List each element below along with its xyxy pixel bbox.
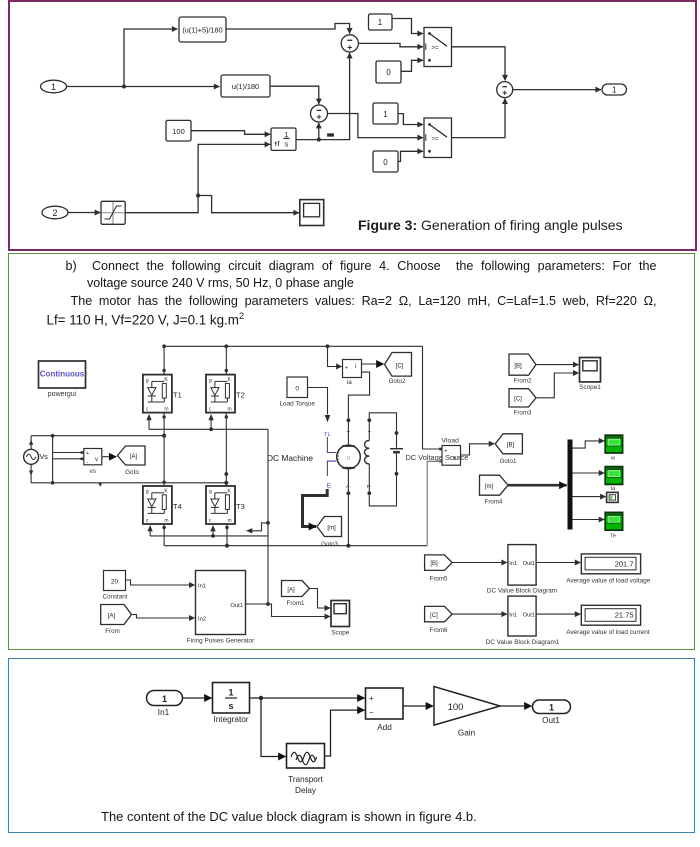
svg-text:21.75: 21.75 bbox=[615, 611, 634, 620]
scope Scope1 bbox=[579, 358, 601, 392]
svg-text:In1: In1 bbox=[158, 708, 170, 717]
svg-text:[B]: [B] bbox=[507, 443, 515, 449]
constant 1 (upper) bbox=[369, 14, 393, 30]
svg-text:In1: In1 bbox=[509, 561, 517, 567]
wire add to gain bbox=[403, 705, 433, 707]
wire switch1 to sum3 bbox=[452, 47, 506, 81]
wire battery- to F- bbox=[369, 476, 396, 506]
AC source Vs bbox=[24, 449, 49, 464]
svg-text:In2: In2 bbox=[198, 617, 206, 623]
display Te bbox=[605, 512, 622, 539]
wire Fcn2 to sum2 bbox=[270, 86, 319, 104]
wire vs measurement taps bbox=[51, 434, 83, 485]
wire demux to Te display bbox=[573, 519, 605, 521]
svg-text:From6: From6 bbox=[430, 627, 448, 634]
svg-text:[A]: [A] bbox=[130, 454, 138, 460]
wire branch to scope bbox=[198, 196, 299, 213]
small display block bbox=[607, 492, 619, 502]
svg-text:Vload: Vload bbox=[442, 437, 460, 444]
section 2: circuit of figure 4 bbox=[8, 253, 695, 650]
svg-text:From4: From4 bbox=[485, 499, 503, 506]
svg-text:ia: ia bbox=[347, 379, 352, 386]
svg-text:From1: From1 bbox=[287, 600, 305, 607]
wire rail A (DC+) bbox=[162, 344, 422, 348]
powergui block bbox=[39, 361, 86, 398]
subsystem DC Value Block Diagram bbox=[487, 545, 557, 595]
svg-text:2: 2 bbox=[52, 208, 57, 218]
sum1 bbox=[341, 35, 358, 52]
svg-text:[B]: [B] bbox=[430, 561, 438, 567]
svg-text:TL: TL bbox=[324, 432, 331, 438]
svg-text:T2: T2 bbox=[236, 391, 245, 400]
wire field F- bbox=[367, 464, 372, 495]
sum2 bbox=[311, 105, 328, 122]
Fcn block (u(1)+5)/180 bbox=[179, 17, 226, 42]
svg-text:w: w bbox=[610, 456, 615, 462]
svg-text:u(1)/180: u(1)/180 bbox=[232, 82, 259, 91]
voltage measurement vs bbox=[84, 449, 102, 476]
wire integrator out with junction bbox=[250, 696, 365, 700]
wire AC+ bus bbox=[31, 435, 164, 437]
svg-text:i: i bbox=[355, 364, 356, 370]
output port 1 bbox=[602, 84, 627, 95]
wire Fcn1 to sum1 bbox=[226, 24, 350, 34]
wire demux to small display bbox=[573, 496, 606, 498]
display 201.7 bbox=[566, 554, 651, 585]
from tag [B] From2 bbox=[509, 354, 536, 385]
switch2 bbox=[424, 118, 452, 158]
svg-text:Average value of load voltage: Average value of load voltage bbox=[566, 578, 651, 585]
wire ia to armature A+ bbox=[347, 372, 370, 422]
svg-text:Te: Te bbox=[610, 533, 616, 539]
section 3: DC value block diagram bbox=[8, 658, 695, 833]
svg-text:[C]: [C] bbox=[396, 363, 404, 369]
svg-text:Continuous: Continuous bbox=[40, 370, 85, 379]
svg-text:Firing Pulses Generator: Firing Pulses Generator bbox=[187, 638, 255, 645]
integrator block bbox=[213, 683, 250, 725]
add block bbox=[366, 688, 404, 732]
svg-text:s: s bbox=[285, 141, 289, 148]
wire sum1 to switch1 bbox=[358, 43, 423, 46]
svg-text:T1: T1 bbox=[173, 391, 182, 400]
svg-text:[m]: [m] bbox=[485, 484, 494, 490]
wire vs to Goto bbox=[102, 456, 117, 458]
svg-text:Transport: Transport bbox=[288, 775, 323, 784]
gate bus T1 T2 bbox=[146, 414, 268, 431]
from tag [A] From bbox=[101, 605, 132, 636]
svg-text:DC Value Block Diagram: DC Value Block Diagram bbox=[487, 588, 557, 595]
wire Vload to Goto1 bbox=[461, 444, 495, 455]
scope block bbox=[300, 200, 324, 226]
wire junction up to sum2 bbox=[318, 123, 320, 140]
svg-text:+: + bbox=[345, 365, 348, 371]
constant 1 (lower) bbox=[373, 103, 398, 124]
subsystem DC Value Block Diagram1 bbox=[486, 596, 560, 646]
wire Vload - to rail D bbox=[427, 460, 442, 546]
svg-text:Goto2: Goto2 bbox=[389, 378, 406, 385]
svg-text:DC Value Block Diagram1: DC Value Block Diagram1 bbox=[486, 639, 560, 646]
svg-text:Goto: Goto bbox=[125, 469, 139, 476]
Fcn block u(1)/180 bbox=[221, 75, 270, 97]
svg-text:100: 100 bbox=[448, 702, 464, 713]
svg-text:Out1: Out1 bbox=[542, 716, 560, 725]
wire 100 to integrator bbox=[191, 131, 270, 135]
wire armature A- to rail D bbox=[346, 469, 351, 546]
wire switch2 to sum3 bbox=[452, 98, 506, 137]
subsystem Firing Pulses Generator bbox=[187, 571, 255, 645]
wire branch to transport delay bbox=[261, 698, 286, 757]
input port In1 bbox=[147, 691, 183, 718]
saturation block bbox=[101, 201, 125, 224]
display 21.75 bbox=[566, 605, 650, 636]
thick wire From4 to demux bbox=[508, 484, 566, 487]
svg-text:1: 1 bbox=[162, 694, 167, 704]
wire From1 to scope bbox=[310, 589, 331, 609]
svg-text:+: + bbox=[86, 451, 89, 457]
display w bbox=[605, 435, 622, 462]
field winding F+ bbox=[367, 418, 371, 440]
svg-text:In1: In1 bbox=[509, 612, 517, 618]
wire junction to Fcn2 bbox=[124, 86, 220, 88]
svg-text:s: s bbox=[228, 701, 233, 711]
svg-text:From3: From3 bbox=[514, 410, 532, 417]
wire leg2 top bbox=[225, 346, 228, 374]
svg-text:F-: F- bbox=[367, 484, 372, 490]
DC machine armature circle bbox=[337, 445, 361, 469]
svg-text:201.7: 201.7 bbox=[615, 559, 634, 568]
wire leg2 bottom bbox=[225, 524, 229, 548]
wire transport delay to add bbox=[325, 710, 365, 756]
scope Scope bbox=[331, 601, 350, 637]
svg-text:>=: >= bbox=[432, 46, 440, 52]
sum3 bbox=[497, 82, 513, 98]
output port Out1 bbox=[533, 700, 571, 725]
gain block bbox=[434, 687, 500, 738]
battery DC voltage source bbox=[390, 435, 403, 476]
svg-text:From5: From5 bbox=[430, 575, 448, 582]
svg-text:DC Voltage Source: DC Voltage Source bbox=[406, 453, 469, 462]
demux bus bar bbox=[568, 440, 573, 530]
svg-text:Average value of load current: Average value of load current bbox=[566, 629, 650, 636]
svg-text:−: − bbox=[369, 708, 374, 717]
wire From3 to Scope1 bbox=[536, 373, 579, 398]
wire From to In2 bbox=[132, 615, 195, 619]
svg-text:DC Machine: DC Machine bbox=[267, 453, 313, 463]
svg-text:v: v bbox=[95, 457, 98, 463]
DC machine TL port (blue) bbox=[324, 432, 336, 490]
thyristor T4 bbox=[143, 486, 182, 524]
wire gate staircase bbox=[246, 523, 268, 534]
wire leg1 mid node M1 bbox=[162, 413, 166, 486]
wire leg1 top bbox=[162, 346, 165, 374]
current measurement ia bbox=[343, 360, 362, 387]
input port 1 bbox=[41, 80, 67, 93]
wire constant to In1 bbox=[126, 580, 195, 585]
wire From6 to DCVBD1 bbox=[452, 613, 507, 615]
svg-text:Add: Add bbox=[377, 723, 392, 732]
integrator 1/s bbox=[271, 128, 296, 150]
svg-text:1: 1 bbox=[51, 82, 56, 92]
wire load torque to TL bbox=[308, 388, 331, 423]
constant 100 bbox=[166, 120, 191, 141]
svg-text:1: 1 bbox=[378, 18, 383, 27]
input port 2 bbox=[42, 206, 68, 219]
from tag [C] From3 bbox=[509, 389, 536, 417]
svg-text:A-: A- bbox=[346, 484, 351, 490]
wire ia signal to Goto2 bbox=[362, 363, 384, 365]
wire port1 to junction bbox=[67, 85, 126, 89]
svg-text:In1: In1 bbox=[198, 584, 206, 590]
svg-text:Out1: Out1 bbox=[523, 561, 535, 567]
svg-text:Vs: Vs bbox=[40, 452, 49, 461]
svg-text:0: 0 bbox=[383, 158, 388, 167]
constant 20 bbox=[103, 571, 128, 601]
svg-text:0: 0 bbox=[295, 385, 299, 392]
thyristor T2 bbox=[206, 375, 245, 413]
svg-text:From: From bbox=[105, 628, 119, 635]
svg-text:Integrator: Integrator bbox=[213, 715, 248, 724]
field winding coil bbox=[365, 441, 370, 464]
wire armature A+ bbox=[347, 422, 351, 445]
svg-text:[A]: [A] bbox=[108, 613, 116, 619]
wire sum2 to switch2 in2 bbox=[328, 114, 424, 138]
goto tag [m] Goto3 bbox=[317, 517, 342, 548]
svg-text:>=: >= bbox=[432, 136, 440, 142]
svg-text:1: 1 bbox=[383, 110, 388, 119]
wire rail A to ia bbox=[328, 346, 342, 366]
wire demux to w display bbox=[573, 441, 605, 448]
from tag [C] From6 bbox=[425, 606, 453, 633]
svg-text:[m]: [m] bbox=[327, 525, 336, 531]
svg-text:Constant: Constant bbox=[103, 594, 128, 601]
constant Load Torque bbox=[279, 377, 315, 408]
svg-text:Scope1: Scope1 bbox=[579, 384, 601, 391]
wire leg1 bottom bbox=[162, 524, 165, 546]
section 1: figure 3 firing angle pulses diagram bbox=[8, 0, 697, 251]
svg-text:Delay: Delay bbox=[295, 786, 317, 795]
wire rail D (DC-) bbox=[164, 544, 427, 548]
svg-text:+: + bbox=[368, 430, 372, 436]
svg-text:20: 20 bbox=[111, 579, 119, 586]
wire DCVBD1 to display bbox=[536, 613, 580, 615]
svg-text:Load Torque: Load Torque bbox=[279, 401, 315, 408]
wire AC bottom terminal bbox=[29, 464, 33, 483]
svg-text:From2: From2 bbox=[514, 378, 532, 385]
svg-text:Goto3: Goto3 bbox=[321, 541, 338, 548]
wire const0b to switch2 in3 bbox=[398, 151, 423, 161]
constant 0 (upper) bbox=[376, 61, 401, 83]
from tag [A] From1 bbox=[282, 581, 310, 607]
svg-text:Scope: Scope bbox=[331, 630, 350, 637]
wire AC top terminal bbox=[29, 436, 33, 450]
svg-text:Figure 3: Generation of firing: Figure 3: Generation of firing angle pul… bbox=[358, 217, 623, 233]
svg-text:E: E bbox=[327, 483, 332, 490]
wire const1 to switch1 in1 bbox=[392, 19, 423, 34]
transport delay block bbox=[287, 744, 325, 796]
wire saturation to riser bbox=[125, 144, 270, 212]
wire const0 to switch1 in3 bbox=[401, 60, 423, 71]
wire DCVBD to display bbox=[536, 562, 580, 564]
svg-text:+: + bbox=[347, 430, 351, 436]
svg-text:Out1: Out1 bbox=[230, 603, 243, 609]
wire integrator out with junctions bbox=[296, 53, 350, 142]
svg-text:+: + bbox=[369, 694, 374, 703]
wire sum3 to out port bbox=[513, 89, 601, 91]
wire junction up to Fcn1 bbox=[124, 29, 178, 87]
wire demux to Ia display bbox=[573, 472, 605, 474]
wire gain to Out1 bbox=[500, 705, 532, 707]
svg-text:100: 100 bbox=[172, 127, 185, 136]
svg-text:powergui: powergui bbox=[48, 391, 77, 398]
svg-text:Out1: Out1 bbox=[523, 612, 535, 618]
thyristor T3 bbox=[206, 486, 245, 524]
svg-text:1: 1 bbox=[549, 702, 554, 712]
wire From5 to DCVBD bbox=[452, 562, 507, 564]
thyristor T1 bbox=[143, 375, 182, 413]
wire leg2 mid node M2 bbox=[224, 413, 228, 486]
wire gate feed vertical bbox=[266, 429, 270, 604]
goto tag [B] Goto1 bbox=[495, 434, 522, 465]
svg-text:-: - bbox=[87, 460, 89, 466]
wire F+ feed from battery bbox=[369, 413, 398, 435]
voltage measurement Vload bbox=[442, 437, 461, 466]
svg-text:0: 0 bbox=[386, 68, 391, 77]
thick wire machine m to Goto3 bbox=[303, 489, 328, 527]
svg-text:[A]: [A] bbox=[287, 587, 295, 593]
display Ia bbox=[605, 467, 622, 493]
svg-text:T4: T4 bbox=[173, 502, 182, 511]
switch1 bbox=[424, 28, 452, 67]
svg-text:[C]: [C] bbox=[514, 397, 522, 403]
wire In1 to integrator bbox=[183, 697, 212, 699]
svg-text:Goto1: Goto1 bbox=[500, 458, 517, 465]
wire port2 to saturation bbox=[68, 212, 100, 214]
wire Vload + from rail A bbox=[423, 346, 442, 450]
from tag [B] From5 bbox=[425, 555, 453, 582]
svg-text:Ia: Ia bbox=[611, 486, 617, 492]
svg-text:Gain: Gain bbox=[458, 729, 476, 738]
svg-text:T3: T3 bbox=[236, 502, 245, 511]
svg-text:(u(1)+5)/180: (u(1)+5)/180 bbox=[182, 26, 222, 35]
goto tag [A] bbox=[118, 446, 146, 476]
wire Out1 to gate feed and scope bbox=[246, 602, 331, 616]
svg-text:vs: vs bbox=[90, 468, 96, 475]
svg-text:[C]: [C] bbox=[430, 613, 438, 619]
wire From2 to Scope1 bbox=[536, 364, 579, 366]
svg-text:The content of the DC value bl: The content of the DC value block diagra… bbox=[101, 809, 477, 824]
wire AC- bus bbox=[31, 483, 226, 487]
svg-text:1: 1 bbox=[228, 688, 233, 698]
gate bus T4 T3 bbox=[147, 525, 268, 538]
constant 0 (lower) bbox=[373, 151, 398, 172]
svg-text:R: R bbox=[347, 456, 351, 462]
svg-text:==: == bbox=[327, 133, 333, 139]
goto tag [C] Goto2 bbox=[385, 353, 412, 385]
from tag [m] From4 bbox=[480, 475, 509, 506]
svg-text:1: 1 bbox=[612, 86, 617, 95]
svg-text:[B]: [B] bbox=[514, 363, 522, 369]
wire const1b to switch2 in1 bbox=[398, 114, 423, 125]
